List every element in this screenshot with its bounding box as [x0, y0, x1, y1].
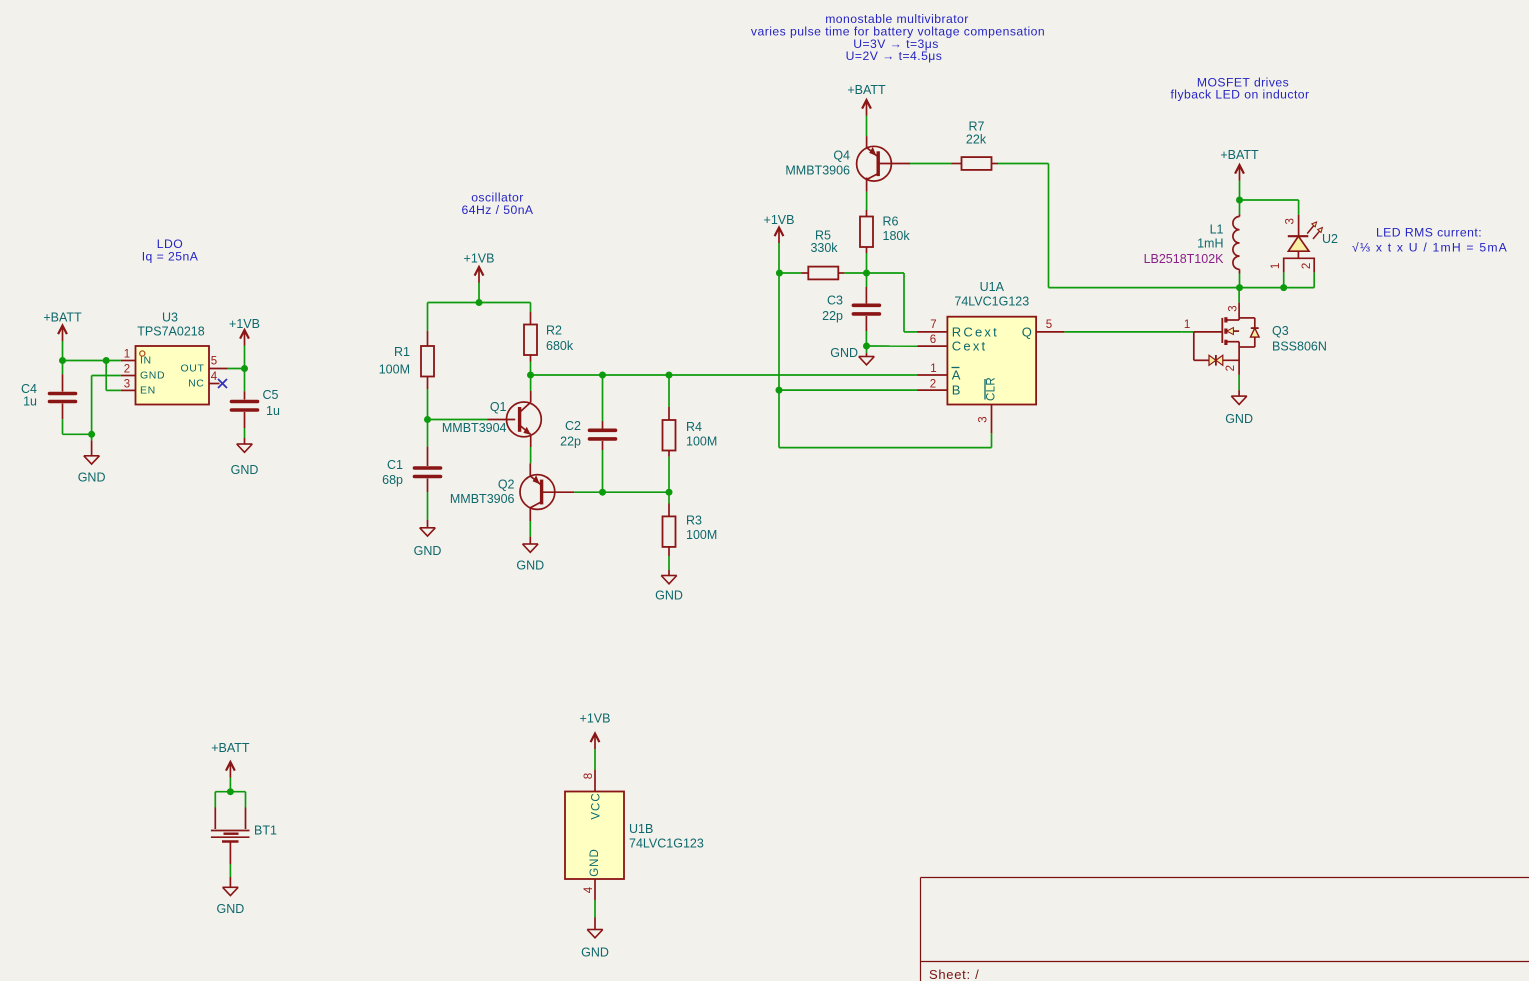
- svg-text:64Hz / 50nA: 64Hz / 50nA: [461, 203, 533, 217]
- U1B pin 8: [594, 770, 596, 792]
- LED U2 pin 3: [1298, 215, 1300, 236]
- wire 1VB v down: [778, 243, 780, 448]
- svg-text:7: 7: [930, 319, 936, 331]
- svg-text:4: 4: [211, 371, 218, 383]
- svg-text:Sheet: /: Sheet: /: [929, 967, 979, 981]
- wire U2 pin2 riser: [1313, 272, 1315, 287]
- junction J-l1-bot: [1236, 284, 1243, 291]
- wire C5 bottom wire: [244, 428, 246, 438]
- U1B gnd pin: [594, 918, 596, 930]
- wire BT1 right v: [245, 792, 247, 808]
- svg-text:GND: GND: [655, 589, 683, 603]
- IC U1A body: [947, 317, 1036, 405]
- svg-text:BT1: BT1: [254, 824, 277, 838]
- junction J-r4-bot: [666, 489, 673, 496]
- junction J-bt1: [227, 788, 234, 795]
- svg-text:330k: 330k: [810, 241, 838, 255]
- svg-text:CLR: CLR: [986, 377, 998, 401]
- svg-text:A: A: [952, 368, 963, 383]
- resistor R6 top pin: [866, 210, 868, 217]
- wire Q4 base to R7: [910, 163, 952, 165]
- U1B pin 4: [594, 879, 596, 900]
- svg-text:VCC: VCC: [591, 792, 603, 819]
- svg-text:GND: GND: [589, 848, 601, 877]
- wire R7 out wire v: [1048, 164, 1050, 288]
- no-connect X on U3 NC: [218, 379, 227, 388]
- svg-text:+BATT: +BATT: [211, 741, 250, 755]
- resistor R2 body: [524, 325, 537, 356]
- capacitor C3 bottom pin: [865, 316, 867, 331]
- wire C2 bottom wire: [602, 450, 604, 492]
- capacitor C1 bottom pin: [427, 479, 429, 493]
- wire rc h2: [904, 331, 918, 333]
- LED U2 cathode bar: [1288, 235, 1309, 237]
- wire R5 right wire: [844, 272, 866, 274]
- wire R7 out wire h: [998, 163, 1049, 165]
- svg-text:RCext: RCext: [952, 324, 999, 339]
- svg-text:180k: 180k: [883, 229, 911, 243]
- wire 1VB-u1b stem: [594, 749, 596, 750]
- junction J-r5-left: [776, 270, 783, 277]
- junction J-osc-1vb: [476, 299, 483, 306]
- svg-text:100M: 100M: [379, 363, 410, 377]
- wire R3 top wire: [668, 492, 670, 503]
- Q1 collector pin: [530, 391, 532, 402]
- svg-text:GND: GND: [140, 370, 165, 382]
- capacitor C2 top pin: [602, 421, 604, 429]
- svg-text:GND: GND: [217, 902, 245, 916]
- svg-text:B: B: [952, 383, 963, 398]
- svg-text:U3: U3: [162, 311, 178, 325]
- svg-text:R4: R4: [686, 420, 702, 434]
- Q2 emitter pin: [529, 463, 531, 477]
- battery BT1: [211, 808, 250, 865]
- ground GND-c3: [859, 357, 875, 365]
- C3 gnd pin: [866, 353, 868, 356]
- LED U2 emission arrows: [1307, 222, 1322, 239]
- LED U2 anode stub: [1297, 251, 1299, 258]
- resistor R6 bottom pin: [866, 247, 868, 253]
- wire Q out: [1064, 331, 1181, 333]
- junction J-c2-bot: [599, 489, 606, 496]
- wire CLR h: [779, 447, 992, 449]
- power symbol +BATT (BATT-q4): [862, 100, 871, 116]
- wire 1VB-osc stem: [478, 283, 480, 303]
- resistor R4 bottom pin: [668, 451, 670, 457]
- junction J-cext: [863, 343, 870, 350]
- svg-text:2: 2: [1225, 365, 1237, 371]
- svg-text:1: 1: [930, 363, 936, 375]
- U1A pin 3 stub: [991, 405, 993, 434]
- svg-text:22k: 22k: [966, 133, 987, 147]
- junction J-r4-top: [666, 372, 673, 379]
- svg-text:GND: GND: [231, 463, 259, 477]
- capacitor C4 plates: [50, 394, 76, 402]
- svg-text:68p: 68p: [382, 473, 403, 487]
- capacitor C3 top pin: [865, 287, 867, 303]
- wire Q4 collector wire: [866, 192, 868, 210]
- svg-text:GND: GND: [830, 346, 858, 360]
- wire gnd branch v: [91, 376, 93, 435]
- power symbol +1VB (1VB-u1b): [591, 734, 600, 750]
- ground GND-c5: [237, 444, 253, 452]
- wire BT1 bottom wire: [229, 864, 231, 877]
- capacitor C4 top pin: [62, 374, 64, 391]
- wire R1 top wire: [427, 303, 429, 331]
- svg-text:flyback LED on inductor: flyback LED on inductor: [1170, 88, 1309, 102]
- ground GND-ldo: [84, 456, 100, 464]
- svg-text:100M: 100M: [686, 528, 717, 542]
- junction J-ldo-out: [241, 365, 248, 372]
- svg-text:C3: C3: [827, 294, 843, 308]
- svg-text:LED RMS current:: LED RMS current:: [1376, 226, 1482, 240]
- capacitor C2 plates: [590, 430, 616, 439]
- wire R5 left wire: [779, 272, 801, 274]
- Q3 gnd pin: [1238, 390, 1240, 396]
- svg-text:3: 3: [1228, 305, 1240, 311]
- svg-text:3: 3: [978, 416, 990, 422]
- wire Cext wire: [867, 345, 918, 347]
- svg-text:MMBT3904: MMBT3904: [442, 421, 507, 435]
- wire C2 top wire: [602, 375, 604, 421]
- resistor R2 bottom pin: [530, 355, 532, 362]
- wire rc v: [903, 273, 905, 332]
- transistor Q4 (PNP): [857, 146, 892, 181]
- inductor L1 coil: [1233, 217, 1240, 270]
- svg-text:C1: C1: [387, 458, 403, 472]
- op-amp U3 body: [136, 346, 210, 405]
- svg-text:MMBT3906: MMBT3906: [785, 164, 850, 178]
- svg-text:1u: 1u: [266, 404, 280, 418]
- svg-text:R2: R2: [546, 324, 562, 338]
- resistor R5 body: [808, 267, 838, 280]
- svg-text:22p: 22p: [560, 435, 581, 449]
- BT1 gnd pin: [229, 877, 231, 887]
- wire R1 bottom wire: [427, 389, 429, 420]
- wire BATT to IN: [62, 344, 64, 361]
- wire U2 top v: [1298, 200, 1300, 215]
- wire R2 bottom wire: [530, 362, 532, 376]
- U1A pin 2 stub: [918, 389, 948, 391]
- wire R6 bottom wire: [866, 253, 868, 273]
- svg-text:TPS7A0218: TPS7A0218: [137, 325, 204, 339]
- svg-text:U2: U2: [1322, 232, 1338, 246]
- svg-text:MMBT3906: MMBT3906: [450, 492, 515, 506]
- wire BT1 top h: [215, 791, 245, 793]
- junction J-q1-base: [424, 416, 431, 423]
- wire en branch h: [106, 389, 121, 391]
- Q2 base pin: [542, 491, 575, 493]
- svg-text:Q4: Q4: [833, 149, 850, 163]
- wire ldo top h: [63, 360, 121, 362]
- U1A pin 6 stub: [918, 345, 948, 347]
- svg-text:Q2: Q2: [498, 478, 515, 492]
- resistor R1 bottom pin: [427, 377, 429, 390]
- wire gnd branch h: [92, 375, 121, 377]
- wire BT1 left v: [214, 792, 216, 808]
- wire C3 gnd wire: [866, 346, 868, 353]
- U3 pin 4 stub: [209, 383, 220, 385]
- resistor R7 left pin: [952, 163, 962, 165]
- Q3 gate pin: [1194, 331, 1223, 333]
- ground GND-q2: [523, 544, 539, 552]
- svg-text:U1A: U1A: [980, 280, 1005, 294]
- junction J-q1-coll: [527, 372, 534, 379]
- wire U2 pin1 riser: [1283, 272, 1285, 287]
- svg-text:R6: R6: [883, 215, 899, 229]
- svg-text:+1VB: +1VB: [580, 712, 611, 726]
- wire C4 top wire: [62, 361, 64, 375]
- svg-text:L1: L1: [1210, 222, 1224, 236]
- U3 pin 5 stub: [209, 368, 228, 370]
- junction J-ldo-en-branch: [103, 357, 110, 364]
- wire en branch v: [105, 361, 107, 391]
- resistor R3 body: [663, 516, 676, 547]
- svg-text:NC: NC: [188, 378, 204, 390]
- U1A pin 5 stub: [1036, 331, 1064, 333]
- capacitor C1 top pin: [427, 447, 429, 466]
- wire C4 bottom wire h: [63, 433, 92, 435]
- svg-text:R7: R7: [969, 120, 985, 134]
- svg-text:GND: GND: [581, 946, 609, 960]
- junction J-c2-top: [599, 372, 606, 379]
- power symbol +BATT (BATT-l1): [1235, 165, 1244, 181]
- U1A pin A overline: [952, 367, 960, 369]
- ground GND-u1b: [587, 930, 603, 938]
- svg-text:680k: 680k: [546, 339, 574, 353]
- svg-text:3: 3: [124, 379, 130, 391]
- svg-text:IN: IN: [140, 355, 152, 367]
- power symbol +1VB (1VB-ldo): [240, 330, 249, 346]
- svg-text:C5: C5: [263, 388, 279, 402]
- capacitor C5 top pin: [244, 391, 246, 399]
- LED U2 pad box: [1284, 258, 1315, 272]
- svg-text:2: 2: [1301, 263, 1313, 269]
- wire C4 bottom wire v: [62, 419, 64, 434]
- svg-text:+BATT: +BATT: [43, 311, 82, 325]
- svg-text:+1VB: +1VB: [764, 213, 795, 227]
- ground GND-c1: [420, 528, 436, 536]
- svg-text:1: 1: [1184, 319, 1190, 331]
- svg-text:BSS806N: BSS806N: [1272, 340, 1327, 354]
- ground GND-r3: [661, 576, 677, 584]
- svg-text:GND: GND: [516, 559, 544, 573]
- svg-text:100M: 100M: [686, 435, 717, 449]
- Q1 emitter pin: [530, 435, 532, 448]
- junction J-u2-pin1: [1280, 284, 1287, 291]
- transistor Q1 (NPN): [507, 402, 542, 437]
- resistor R3 top pin: [668, 504, 670, 517]
- wire gnd stub: [91, 434, 93, 440]
- wire osc top rail: [428, 302, 531, 304]
- resistor R7 right pin: [992, 163, 999, 165]
- capacitor C2 bottom pin: [602, 441, 604, 450]
- capacitor C5 plates: [232, 402, 258, 411]
- wire L1 bottom wire: [1239, 274, 1241, 288]
- svg-text:2: 2: [124, 364, 130, 376]
- resistor R4 top pin: [668, 407, 670, 420]
- U3 pin 2 stub: [121, 375, 136, 377]
- U1A pin 1 stub: [918, 374, 948, 376]
- junction J-ldo-batt: [59, 357, 66, 364]
- inductor L1 bottom pin: [1239, 269, 1241, 273]
- wire gate wire: [1182, 331, 1194, 333]
- U1A CLR overline: [984, 379, 986, 400]
- capacitor C5 bottom pin: [244, 412, 246, 428]
- wire Q1 collector wire: [530, 375, 532, 391]
- Q2 gnd pin: [529, 537, 531, 544]
- wire Q3 drain wire: [1238, 288, 1240, 303]
- capacitor C1 plates: [415, 468, 441, 477]
- svg-text:EN: EN: [140, 384, 156, 396]
- wire R4 top wire: [668, 375, 670, 407]
- wire rc h1: [867, 272, 905, 274]
- svg-text:√⅓ x t x U / 1mH = 5mA: √⅓ x t x U / 1mH = 5mA: [1352, 241, 1508, 255]
- LED U2 triangle: [1288, 236, 1309, 251]
- junction J-ldo-gnd: [88, 431, 95, 438]
- Q2 collector pin: [529, 508, 531, 521]
- resistor R2 top pin: [530, 312, 532, 325]
- junction J-r6-c3: [863, 270, 870, 277]
- wire B input: [779, 389, 918, 391]
- svg-text:Q3: Q3: [1272, 324, 1289, 338]
- wire Q1 base wire: [428, 419, 488, 421]
- C5 gnd pin: [244, 438, 246, 444]
- Q4 emitter pin: [866, 136, 868, 148]
- wire 1VB stem2: [244, 346, 246, 369]
- resistor R7 body: [962, 157, 992, 170]
- wire CLR v: [991, 433, 993, 447]
- svg-text:Q1: Q1: [490, 400, 507, 414]
- svg-text:GND: GND: [78, 471, 106, 485]
- svg-text:1u: 1u: [23, 395, 37, 409]
- ground pin ldo: [91, 441, 93, 456]
- junction J-b-pin: [776, 387, 783, 394]
- R3 gnd pin: [668, 570, 670, 576]
- svg-text:U1B: U1B: [629, 822, 653, 836]
- U1A pin 7 stub: [918, 331, 948, 333]
- C1 gnd pin: [427, 520, 429, 528]
- wire R4 bottom wire: [668, 457, 670, 493]
- svg-text:R1: R1: [394, 345, 410, 359]
- svg-text:GND: GND: [414, 544, 442, 558]
- wire osc out rail: [531, 374, 918, 376]
- svg-text:+BATT: +BATT: [847, 83, 886, 97]
- wire Q2 out rail: [574, 491, 669, 493]
- svg-text:+1VB: +1VB: [464, 252, 495, 266]
- svg-text:6: 6: [930, 334, 936, 346]
- wire C3 top wire: [866, 273, 868, 287]
- wire C3 bottom wire: [865, 331, 867, 346]
- ground GND-q3: [1231, 396, 1247, 404]
- wire U1B top wire: [594, 750, 596, 770]
- U3 pin 3 stub: [121, 389, 136, 391]
- U3 pin 1 stub: [121, 360, 136, 362]
- svg-text:1mH: 1mH: [1197, 237, 1223, 251]
- svg-text:+BATT: +BATT: [1220, 148, 1259, 162]
- resistor R6 body: [860, 217, 873, 248]
- wire U1B bottom wire: [594, 900, 596, 918]
- wire U2 top h: [1240, 199, 1299, 201]
- svg-text:R3: R3: [686, 514, 702, 528]
- power symbol +1VB (1VB-mono): [775, 228, 784, 244]
- svg-text:+1VB: +1VB: [229, 317, 260, 331]
- IC U1B body: [565, 792, 624, 880]
- svg-text:8: 8: [583, 773, 595, 779]
- power symbol +BATT (BATT-bt1): [226, 762, 235, 778]
- svg-text:1: 1: [124, 349, 130, 361]
- transistor Q2 (PNP): [520, 475, 555, 510]
- svg-text:3: 3: [1285, 218, 1297, 224]
- svg-text:U=2V → t=4.5μs: U=2V → t=4.5μs: [846, 49, 943, 63]
- wire L1 to U2 bottom: [1240, 287, 1315, 289]
- resistor R1 body: [421, 346, 434, 377]
- wire BATT-bt1 stem: [229, 778, 231, 792]
- wire OUT wire: [228, 368, 245, 370]
- resistor R5 right pin: [838, 272, 844, 274]
- svg-text:LB2518T102K: LB2518T102K: [1144, 252, 1225, 266]
- Q1 base pin: [488, 419, 516, 421]
- inductor L1 top pin: [1239, 214, 1241, 216]
- resistor R5 left pin: [802, 272, 809, 274]
- svg-text:5: 5: [211, 356, 217, 368]
- wire L1 top wire: [1239, 200, 1241, 214]
- wire BATT-ldo stem: [62, 341, 64, 344]
- wire R2 top wire: [530, 303, 532, 312]
- U3 pin1 circle decoration: [140, 351, 145, 356]
- wire Q2 collector wire: [529, 521, 531, 537]
- Q4 base pin: [878, 163, 910, 165]
- wire C1 bottom wire: [427, 492, 429, 520]
- resistor R3 bottom pin: [668, 547, 670, 556]
- wire Q4 emitter wire: [866, 116, 868, 137]
- capacitor C4 bottom pin: [62, 404, 64, 420]
- svg-text:4: 4: [583, 886, 595, 893]
- svg-text:74LVC1G123: 74LVC1G123: [954, 294, 1029, 308]
- title block frame: [921, 878, 1529, 981]
- wire BATT-l1 stem: [1239, 181, 1241, 201]
- wire R3 bottom wire: [668, 556, 670, 570]
- transistor Q3 (MOSFET BSS806N): [1194, 303, 1259, 375]
- svg-text:5: 5: [1046, 319, 1052, 331]
- svg-text:C2: C2: [565, 419, 581, 433]
- power symbol +BATT (BATT-ldo): [58, 326, 67, 342]
- svg-text:1: 1: [1270, 263, 1282, 269]
- wire C5 top wire: [244, 369, 246, 392]
- resistor R1 top pin: [427, 331, 429, 346]
- resistor R4 body: [663, 420, 676, 451]
- wire R7 out to L1: [1049, 287, 1240, 289]
- svg-text:GND: GND: [1225, 412, 1253, 426]
- wire Q1-Q2 wire: [530, 447, 532, 463]
- svg-text:OUT: OUT: [181, 363, 205, 375]
- capacitor C3 plates: [853, 305, 879, 314]
- wire C1 top wire: [427, 420, 429, 447]
- ground GND-bt1: [223, 887, 239, 895]
- wire Q3 source wire: [1238, 375, 1240, 390]
- svg-text:Iq = 25nA: Iq = 25nA: [142, 250, 199, 264]
- svg-text:74LVC1G123: 74LVC1G123: [629, 837, 704, 851]
- svg-text:Q: Q: [1022, 324, 1032, 339]
- Q4 collector pin: [866, 178, 868, 192]
- power symbol +1VB (1VB-osc): [475, 267, 484, 283]
- junction J-l1-top: [1236, 197, 1243, 204]
- svg-text:2: 2: [930, 378, 936, 390]
- svg-text:Cext: Cext: [952, 339, 988, 354]
- svg-text:22p: 22p: [822, 309, 843, 323]
